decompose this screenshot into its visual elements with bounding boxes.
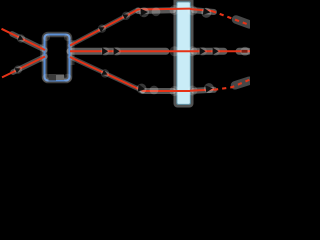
arrowhead 1 on ray C: [96, 23, 107, 34]
lens L2 (tall cyan bar with halo casing): [174, 0, 194, 108]
element U1: hollow blue rectangle outline: [45, 35, 70, 81]
arrowhead on ray C': [201, 7, 212, 18]
arrowhead on ray E': [203, 83, 214, 94]
arrowhead 1 on axis ray D (right of lens): [198, 47, 207, 56]
halo corner blobs of rectangle: [42, 34, 71, 82]
wire halo: ray E' casing (refracted lower ray): [194, 81, 249, 91]
ray A (red, upper-left): [2, 29, 46, 50]
ray B (red, lower-left): [2, 57, 45, 78]
ray E' (red, refracted up after lens, dashed tail): [190, 90, 214, 91]
wire halo: ray E casing (lower diverging ray to lens): [70, 57, 173, 91]
wire halo: ray A casing (upper-left converging ray): [12, 34, 45, 50]
halo blob after arrow on ray C flat part: [152, 7, 161, 16]
wire halo: ray B casing (lower-left converging ray): [13, 57, 45, 73]
arrowhead at axis ray end (dark red tip): [241, 47, 250, 56]
halo puddle left of rectangle where ray casings merge: [40, 44, 45, 62]
wire halo: ray C casing (upper diverging ray to lens): [70, 10, 173, 46]
ray C (red, upper diverging): [70, 9, 190, 46]
arrowhead on ray E flat part: [136, 83, 148, 95]
arrowhead on ray A: [15, 33, 26, 44]
ray C' (red, refracted down after lens, dashed tail): [190, 9, 212, 11]
wire halo: ray C' casing (refracted upper ray): [194, 10, 249, 24]
halo blob after arrow on ray E flat part: [150, 86, 159, 95]
label smudge inside rectangle bottom: [49, 74, 65, 81]
halo puddle right of rectangle where ray casings merge: [70, 40, 75, 65]
wire halo: axis ray D casing: [70, 48, 248, 55]
arrowhead 2 on axis ray D (left of lens): [112, 47, 121, 56]
ray E (red, lower diverging): [70, 57, 190, 91]
arrowhead 2 on ray C: [120, 10, 131, 21]
arrowhead on ray B: [12, 64, 23, 75]
halo blobs where ray casings meet the lens flanks: [170, 5, 198, 96]
element U1: hollow blue rectangle (left element) halo casing: [45, 35, 70, 81]
ray D (red, optical axis): [70, 50, 250, 52]
arrowhead on ray C flat part: [139, 7, 149, 17]
arrowhead on ray E diagonal: [99, 68, 110, 79]
arrowhead 2 on axis ray D (right of lens): [211, 47, 220, 56]
arrowhead 1 on axis ray D (left of lens): [101, 47, 110, 56]
